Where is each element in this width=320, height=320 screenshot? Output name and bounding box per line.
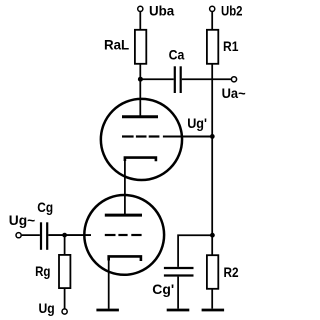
terminal Ug~ bbox=[16, 233, 21, 238]
capacitor Cg bbox=[41, 222, 47, 250]
junction dot input node bbox=[62, 233, 67, 238]
terminal Ub2 bbox=[210, 6, 215, 11]
ground under R2 bbox=[202, 309, 225, 312]
triode V1 envelope bbox=[101, 99, 182, 180]
resistor R1 bbox=[207, 30, 218, 64]
resistor R2 bbox=[207, 255, 218, 289]
wire R1 to R2 (main right rail) bbox=[211, 64, 213, 255]
svg-text:R2: R2 bbox=[224, 264, 239, 280]
wire RaL to anode of V1 bbox=[139, 64, 141, 116]
junction dot node anode V1 bbox=[138, 77, 143, 82]
ground under Cg' bbox=[167, 309, 190, 312]
resistor RaL bbox=[135, 30, 146, 64]
wire R2 to ground bbox=[211, 289, 213, 309]
wire Ug~ to Cg bbox=[22, 234, 40, 236]
wire cathode V1 to anode V2 bbox=[124, 159, 126, 215]
wire Ub2 to R1 bbox=[211, 12, 213, 30]
capacitor Cg' bbox=[164, 268, 194, 276]
junction dot output node bbox=[210, 233, 215, 238]
wire node to Ca bbox=[140, 78, 173, 80]
wire grid V1 to right rail bbox=[163, 136, 212, 138]
svg-text:Rg: Rg bbox=[35, 263, 50, 279]
anode bar V2 bbox=[105, 214, 142, 217]
svg-text:Uba: Uba bbox=[149, 2, 174, 18]
cathode V1 bbox=[125, 158, 156, 162]
grid V1 (dashed) bbox=[122, 135, 159, 137]
grid V2 (dashed) bbox=[105, 234, 142, 236]
wire cathode V2 to ground bbox=[108, 258, 110, 309]
svg-text:Cg: Cg bbox=[37, 199, 53, 215]
svg-text:Ug: Ug bbox=[39, 300, 55, 316]
svg-text:Ub2: Ub2 bbox=[221, 2, 243, 18]
svg-text:Ca: Ca bbox=[169, 47, 185, 63]
terminal Ua~ bbox=[231, 77, 236, 82]
resistor Rg bbox=[59, 255, 70, 288]
svg-text:Ua~: Ua~ bbox=[222, 85, 246, 101]
wire Uba to RaL bbox=[139, 12, 141, 30]
cathode V2 bbox=[109, 256, 141, 261]
svg-text:Cg': Cg' bbox=[152, 281, 174, 297]
wire Ca to Ua~ bbox=[182, 78, 231, 80]
terminal Uba bbox=[138, 6, 143, 11]
wire Cg to grid V2 bbox=[48, 234, 91, 236]
anode bar V1 bbox=[122, 115, 158, 118]
wire Rg to Ug bbox=[64, 288, 66, 309]
terminal Ug bbox=[62, 309, 67, 314]
capacitor Ca bbox=[175, 66, 181, 93]
wire output node to Cg' bbox=[178, 235, 212, 267]
svg-text:R1: R1 bbox=[223, 38, 239, 54]
triode V2 envelope bbox=[84, 195, 164, 275]
wire input node to Rg bbox=[64, 235, 66, 255]
junction dot grid V1 node bbox=[210, 134, 215, 139]
svg-text:Ug': Ug' bbox=[187, 115, 207, 131]
svg-text:RaL: RaL bbox=[104, 37, 130, 53]
wire Cg' to ground bbox=[177, 277, 179, 309]
ground under cathode V2 bbox=[96, 309, 119, 312]
svg-text:Ug~: Ug~ bbox=[9, 212, 35, 228]
